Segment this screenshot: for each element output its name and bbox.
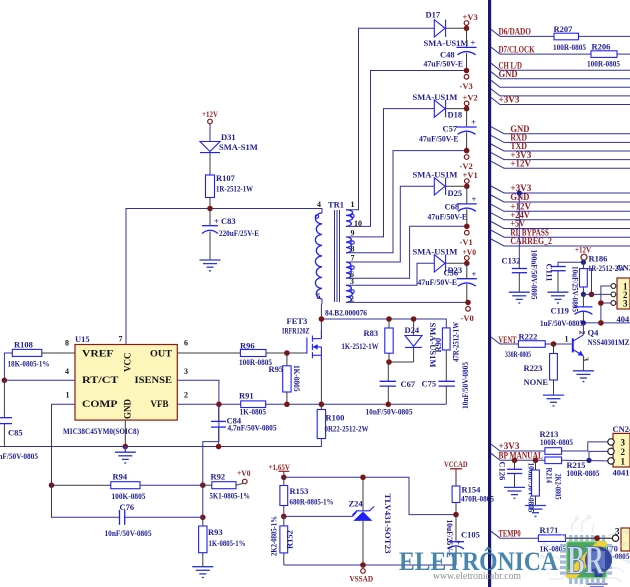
node +1,65V bbox=[281, 475, 287, 481]
svg-text:C68: C68 bbox=[445, 202, 460, 212]
capacitor C126 bbox=[498, 460, 537, 512]
svg-text:SMA-S1M: SMA-S1M bbox=[219, 142, 258, 152]
U15 GND pin wire bbox=[124, 420, 126, 446]
ground R214 bbox=[525, 506, 546, 517]
node D24 top bbox=[411, 316, 417, 322]
node R214 top bbox=[533, 458, 539, 464]
U15 pin numbers bbox=[65, 335, 188, 400]
svg-text:SMA-US1M: SMA-US1M bbox=[413, 170, 458, 180]
wire R222 to Q4 base bbox=[545, 343, 571, 345]
svg-text:BR: BR bbox=[567, 537, 604, 583]
bus vertical bbox=[488, 0, 491, 587]
svg-text:C76: C76 bbox=[120, 502, 135, 512]
resistor R108 bbox=[8, 340, 50, 369]
ground C126 bbox=[504, 487, 525, 498]
wire spare2 bbox=[491, 89, 630, 96]
zener Z24 TLV431 bbox=[349, 477, 394, 565]
svg-text:R186: R186 bbox=[589, 254, 608, 264]
node pin2 bbox=[589, 292, 595, 298]
wire Z24 ref bbox=[284, 515, 353, 517]
net flag +V0 bbox=[237, 468, 251, 484]
resistor R107 bbox=[206, 173, 254, 198]
svg-text:9: 9 bbox=[351, 228, 355, 237]
svg-text:D24: D24 bbox=[405, 325, 420, 335]
capacitor C67 bbox=[366, 362, 416, 417]
resistor R94 bbox=[52, 472, 146, 502]
resistor R152 bbox=[269, 516, 295, 565]
svg-text:+: + bbox=[471, 38, 476, 48]
wire +3V3 d bbox=[491, 441, 545, 451]
svg-text:NSS40301MZ: NSS40301MZ bbox=[588, 337, 630, 347]
svg-text:D6/DADO: D6/DADO bbox=[499, 27, 532, 37]
svg-text:-V1: -V1 bbox=[460, 237, 473, 247]
resistor R171 bbox=[538, 525, 566, 554]
wire R108 to VREF bbox=[42, 352, 75, 354]
node C76 left bbox=[200, 515, 206, 521]
wire COMP loop bbox=[52, 404, 76, 485]
resistor R186 bbox=[580, 254, 626, 295]
resistor R206 bbox=[587, 41, 620, 68]
svg-text:TR1: TR1 bbox=[328, 200, 344, 210]
node R94 left bbox=[49, 482, 55, 488]
wire node to CN2 pin2 bbox=[583, 293, 611, 295]
svg-text:0R22-2512-2W: 0R22-2512-2W bbox=[325, 424, 369, 434]
node pin3 bbox=[598, 300, 604, 306]
svg-text:C126: C126 bbox=[498, 462, 508, 481]
svg-text:8: 8 bbox=[351, 244, 355, 253]
svg-text:1K-2512-1W: 1K-2512-1W bbox=[342, 341, 379, 351]
wire pin7 to D25 row bbox=[346, 186, 434, 262]
svg-text:FET3: FET3 bbox=[287, 316, 308, 326]
wire +12V c bbox=[491, 202, 630, 212]
svg-text:2: 2 bbox=[578, 331, 587, 335]
resistor R215 bbox=[545, 457, 600, 478]
node +3V3/C132 bbox=[517, 190, 522, 195]
svg-text:C111: C111 bbox=[545, 264, 555, 282]
resistor R223 bbox=[524, 344, 558, 395]
svg-text:3: 3 bbox=[621, 437, 626, 447]
capacitor C105 bbox=[445, 515, 480, 565]
svg-text:VCCAD: VCCAD bbox=[444, 459, 468, 469]
node R186 top bbox=[581, 260, 586, 265]
svg-text:CN24: CN24 bbox=[613, 424, 630, 434]
wire VFB down bbox=[203, 404, 219, 517]
svg-text:680R-0805-1%: 680R-0805-1% bbox=[290, 497, 334, 507]
net flag VSSAD bbox=[350, 565, 374, 584]
node +V3 bbox=[464, 26, 470, 32]
svg-text:100K-0805: 100K-0805 bbox=[112, 491, 146, 501]
node R154/C105 bbox=[453, 512, 459, 518]
wire snubber rail bbox=[321, 319, 446, 328]
diode D24 bbox=[405, 319, 439, 367]
svg-text:R96: R96 bbox=[240, 341, 255, 351]
svg-text:D7/CLOCK: D7/CLOCK bbox=[499, 44, 535, 54]
node R92 bbox=[200, 482, 206, 488]
wire RL BYPASS bbox=[491, 227, 630, 237]
resistor R95 bbox=[269, 353, 303, 404]
wire to CN24 pin2 bbox=[589, 451, 608, 460]
ground U15 bbox=[115, 447, 136, 464]
svg-text:330R-0805: 330R-0805 bbox=[505, 349, 531, 359]
resistor R207 bbox=[553, 24, 586, 52]
capacitor C132 bbox=[502, 250, 540, 300]
node Z24 top bbox=[360, 475, 366, 481]
wire pin1 to D17 row bbox=[346, 28, 434, 209]
net flag +12V R186 bbox=[575, 245, 592, 261]
net flag +12V bbox=[202, 109, 219, 124]
svg-text:2K2-0805-1%: 2K2-0805-1% bbox=[269, 516, 279, 556]
resistor R153 bbox=[280, 477, 334, 516]
svg-text:1: 1 bbox=[621, 456, 626, 466]
wire R213 to CN24 pin3 bbox=[562, 442, 608, 451]
svg-text:5K1-0805-1%: 5K1-0805-1% bbox=[210, 491, 251, 501]
svg-text:U15: U15 bbox=[75, 334, 90, 344]
svg-text:NONE: NONE bbox=[524, 377, 549, 387]
TR1 primary winding bbox=[315, 213, 322, 299]
net flag +V0 bbox=[463, 247, 477, 260]
wire GND c bbox=[491, 192, 630, 202]
wire R96 to gate bbox=[266, 352, 307, 354]
diode D23 bbox=[413, 247, 467, 276]
svg-text:+V3: +V3 bbox=[463, 12, 478, 22]
capacitor C75 bbox=[422, 350, 471, 409]
U15 pin names bbox=[82, 349, 172, 420]
svg-text:100R-0805: 100R-0805 bbox=[540, 437, 573, 447]
svg-text:+V0: +V0 bbox=[463, 247, 477, 257]
connector CN24 bbox=[608, 424, 630, 478]
capacitor C68 bbox=[428, 186, 477, 226]
capacitor C111 bbox=[545, 262, 584, 312]
wire rail right part bbox=[219, 403, 446, 405]
net flag VCCAD bbox=[444, 459, 468, 486]
svg-text:1K-0805: 1K-0805 bbox=[240, 407, 267, 417]
capacitor C83 bbox=[202, 209, 259, 260]
node R186 bottom bbox=[581, 292, 586, 297]
svg-text:10nF/50V-0805: 10nF/50V-0805 bbox=[105, 528, 152, 538]
connector CN temp bbox=[612, 526, 630, 551]
svg-text:84.B2.000076: 84.B2.000076 bbox=[325, 308, 367, 318]
wire GND bbox=[491, 69, 630, 79]
net flag -V2 bbox=[460, 155, 473, 171]
TR1 primary polarity dot bbox=[315, 215, 318, 218]
svg-text:R214: R214 bbox=[545, 468, 555, 484]
capacitor C85 bbox=[0, 380, 38, 461]
wire D24 to R83 node bbox=[389, 361, 414, 363]
capacitor C84 bbox=[211, 404, 277, 446]
wire R107 to node bbox=[209, 198, 211, 209]
net flag -V3 bbox=[460, 75, 473, 92]
svg-text:1R-2512-1W: 1R-2512-1W bbox=[216, 184, 253, 194]
svg-text:8: 8 bbox=[65, 339, 69, 348]
svg-text:R108: R108 bbox=[14, 340, 33, 350]
wire CH L/D bbox=[491, 60, 630, 70]
svg-text:R152: R152 bbox=[285, 530, 295, 549]
TR1 secondary winding 7-6 bbox=[346, 253, 355, 279]
resistor R83 bbox=[342, 319, 394, 362]
svg-text:1K-0805-1%: 1K-0805-1% bbox=[209, 538, 246, 548]
capacitor C57 bbox=[419, 109, 477, 151]
svg-text:TLV431-SOT23: TLV431-SOT23 bbox=[383, 494, 393, 554]
wire collector rail bbox=[583, 322, 630, 324]
node -V0 bbox=[465, 300, 471, 306]
svg-text:GND: GND bbox=[499, 69, 518, 79]
ground C132 bbox=[509, 292, 530, 303]
svg-text:47uF/50V-E: 47uF/50V-E bbox=[418, 277, 458, 287]
node R215 out bbox=[586, 458, 591, 463]
TR1 secondary winding 1-10 bbox=[346, 210, 362, 228]
wire +3V3 c bbox=[491, 183, 630, 193]
wire R108 left to node bbox=[4, 353, 12, 380]
svg-text:100R-0805: 100R-0805 bbox=[239, 357, 272, 367]
wire C132 drop bbox=[518, 193, 520, 258]
svg-text:R206: R206 bbox=[592, 41, 611, 51]
wire isense rail bbox=[177, 403, 219, 405]
net flag -V1 bbox=[460, 230, 473, 247]
svg-text:1: 1 bbox=[66, 391, 70, 400]
svg-text:ISENSE: ISENSE bbox=[135, 375, 173, 385]
svg-text:47uF/50V-E: 47uF/50V-E bbox=[428, 212, 468, 222]
svg-text:VREF: VREF bbox=[82, 349, 114, 359]
wire R215 to CN24 pin1 bbox=[562, 459, 608, 462]
node gate/R95 bbox=[284, 350, 290, 356]
wire R94 to node bbox=[140, 484, 203, 486]
svg-text:COMP: COMP bbox=[82, 399, 118, 409]
resistor R170 bbox=[593, 538, 629, 583]
svg-text:D17: D17 bbox=[426, 10, 441, 20]
resistor R96 bbox=[177, 341, 272, 368]
svg-text:CARREG_2: CARREG_2 bbox=[510, 236, 552, 246]
diode D18 bbox=[413, 92, 467, 120]
resistor R213 bbox=[540, 429, 574, 454]
svg-text:C56: C56 bbox=[444, 268, 459, 278]
wire spare1 bbox=[491, 80, 630, 87]
svg-text:47uF/50V-E: 47uF/50V-E bbox=[424, 59, 464, 69]
wire R171 to CN bbox=[566, 537, 613, 539]
svg-text:C105: C105 bbox=[461, 530, 480, 540]
wire pin8 to -V2 row bbox=[346, 151, 467, 253]
svg-text:+V2: +V2 bbox=[463, 93, 478, 103]
wire VCC rail y=208.5 bbox=[126, 209, 322, 345]
connector CN2 bbox=[611, 263, 630, 325]
node +V2 bbox=[464, 106, 470, 112]
svg-text:R94: R94 bbox=[113, 472, 128, 482]
wire +3V3 a bbox=[491, 95, 630, 105]
svg-text:IRFR120Z: IRFR120Z bbox=[282, 326, 310, 336]
svg-text:SMA-US1M: SMA-US1M bbox=[413, 247, 458, 257]
svg-text:R95: R95 bbox=[269, 364, 284, 374]
wire pin9 to D18 row bbox=[346, 109, 434, 237]
TR1 secondary winding 9-8 bbox=[346, 228, 355, 253]
svg-text:C67: C67 bbox=[401, 379, 416, 389]
wire BP MANUAL bbox=[491, 451, 545, 461]
node rail/pins bbox=[598, 320, 604, 326]
svg-text:R223: R223 bbox=[524, 363, 543, 373]
svg-text:R153: R153 bbox=[290, 486, 309, 496]
svg-text:7: 7 bbox=[351, 253, 355, 262]
svg-text:VFB: VFB bbox=[151, 399, 169, 409]
svg-text:MIC38C45YM0(SOIC8): MIC38C45YM0(SOIC8) bbox=[63, 427, 139, 436]
wire CN2 pin3 bbox=[601, 302, 611, 304]
svg-text:+: + bbox=[472, 269, 477, 279]
node C119 bottom bbox=[581, 320, 586, 325]
op-amp U15 box bbox=[75, 345, 177, 421]
svg-text:4: 4 bbox=[317, 200, 321, 209]
wire FET drain bbox=[320, 319, 322, 330]
svg-text:SMA-US1M: SMA-US1M bbox=[413, 92, 458, 102]
net flag +V2 bbox=[463, 93, 478, 106]
ground C111 bbox=[548, 292, 569, 303]
ground C83 bbox=[200, 260, 221, 271]
wire RXD bbox=[491, 133, 630, 143]
node C126 top bbox=[512, 458, 518, 464]
node FET drain bbox=[319, 316, 325, 322]
svg-text:10nF/50V-0805: 10nF/50V-0805 bbox=[366, 407, 413, 417]
resistor R91 bbox=[239, 391, 266, 417]
svg-text:10nF/50V-0805: 10nF/50V-0805 bbox=[460, 362, 470, 409]
svg-text:Q4: Q4 bbox=[588, 328, 600, 338]
svg-text:+12V: +12V bbox=[510, 158, 531, 168]
node -V1 bbox=[464, 224, 470, 230]
svg-text:+: + bbox=[471, 117, 476, 127]
wire +3V3 b bbox=[491, 150, 630, 160]
wire +12V bypass to pin2 bbox=[587, 269, 591, 295]
svg-text:R222: R222 bbox=[519, 331, 538, 341]
svg-text:VCC: VCC bbox=[123, 353, 133, 373]
svg-text:18K-0805-1%: 18K-0805-1% bbox=[8, 359, 50, 369]
wire TEMP0 bbox=[491, 528, 538, 538]
node +V1 bbox=[464, 184, 470, 190]
capacitor C56 bbox=[418, 263, 477, 302]
net flag +1,65V bbox=[269, 462, 291, 477]
svg-text:VSSAD: VSSAD bbox=[350, 574, 374, 584]
svg-text:2: 2 bbox=[621, 447, 626, 457]
resistor R100 bbox=[317, 404, 369, 438]
svg-text:1K-0805: 1K-0805 bbox=[292, 365, 302, 392]
node -V3 bbox=[464, 68, 470, 74]
transistor FET3 bbox=[282, 316, 321, 360]
svg-text:1uF/50V-0805: 1uF/50V-0805 bbox=[540, 318, 583, 328]
svg-text:R107: R107 bbox=[216, 173, 236, 183]
svg-text:VENT: VENT bbox=[499, 335, 517, 345]
TR1 core bbox=[335, 210, 340, 302]
wire pin2 to -V0 node bbox=[346, 301, 468, 303]
node C84 bottom bbox=[216, 444, 222, 450]
resistor R154 bbox=[452, 485, 494, 515]
svg-text:-V3: -V3 bbox=[460, 81, 473, 91]
wire ground rail y=446.5 bbox=[0, 439, 321, 447]
wire VSSAD rail bbox=[284, 564, 456, 566]
wire RT/CT bbox=[4, 379, 75, 381]
ground R93 bbox=[192, 567, 213, 578]
svg-text:100nF/50V-0805: 100nF/50V-0805 bbox=[530, 250, 540, 300]
wire TEMP0 overlay bbox=[566, 535, 613, 541]
svg-text:47uF/50V-E: 47uF/50V-E bbox=[419, 134, 459, 144]
svg-text:C85: C85 bbox=[8, 428, 23, 438]
svg-text:C75: C75 bbox=[422, 379, 437, 389]
node VSSAD bbox=[360, 562, 366, 568]
svg-text:4,7nF/50V-0805: 4,7nF/50V-0805 bbox=[228, 423, 277, 433]
svg-text:2: 2 bbox=[184, 391, 188, 400]
svg-text:C57: C57 bbox=[443, 124, 458, 134]
capacitor C48 bbox=[424, 28, 477, 70]
svg-text:RT/CT: RT/CT bbox=[82, 375, 119, 385]
diode D25 bbox=[413, 170, 467, 199]
net flag -V0 bbox=[461, 307, 474, 324]
wire D31 to R107 bbox=[209, 153, 211, 175]
net flag +V1 bbox=[463, 170, 478, 183]
node FET source rail bbox=[319, 402, 325, 408]
svg-text:3: 3 bbox=[623, 299, 628, 309]
svg-text:2K2-0805: 2K2-0805 bbox=[554, 474, 564, 500]
svg-text:-V0: -V0 bbox=[461, 313, 474, 323]
chip body bbox=[567, 542, 613, 579]
svg-text:R100: R100 bbox=[326, 413, 345, 423]
svg-text:40410: 40410 bbox=[617, 314, 630, 324]
wire pin5 to FET drain node bbox=[320, 299, 323, 319]
wire VENT bbox=[491, 335, 518, 345]
svg-text:100R-0805: 100R-0805 bbox=[567, 468, 600, 478]
svg-text:CN2: CN2 bbox=[617, 263, 630, 273]
svg-text:R207: R207 bbox=[554, 24, 574, 34]
svg-text:Z24: Z24 bbox=[349, 499, 364, 509]
svg-text:220uF/25V-E: 220uF/25V-E bbox=[219, 228, 259, 238]
diode D17 bbox=[424, 10, 469, 49]
svg-text:100R-0805: 100R-0805 bbox=[587, 59, 620, 69]
svg-text:TEMP0: TEMP0 bbox=[499, 528, 522, 538]
svg-text:+: + bbox=[472, 194, 477, 204]
svg-text:R90: R90 bbox=[433, 338, 443, 353]
node R95 bottom bbox=[284, 402, 290, 408]
wire +1,65V rail bbox=[284, 477, 456, 514]
svg-text:+3V3: +3V3 bbox=[499, 95, 520, 105]
node RT/CT bbox=[2, 378, 8, 384]
wire FET source bbox=[320, 360, 322, 404]
ground Q4 bbox=[573, 371, 594, 382]
svg-text:D31: D31 bbox=[221, 132, 236, 142]
node R152 top bbox=[281, 514, 287, 520]
svg-text:D25: D25 bbox=[448, 188, 463, 198]
svg-text:47R-2512-1W: 47R-2512-1W bbox=[451, 322, 461, 362]
wire TXD bbox=[491, 141, 630, 151]
svg-text:GND: GND bbox=[123, 399, 133, 420]
svg-text:3: 3 bbox=[615, 526, 620, 536]
resistor R214 bbox=[532, 460, 564, 505]
chip pins bbox=[560, 535, 612, 584]
node -V2 bbox=[464, 148, 470, 154]
node C67 top bbox=[386, 359, 392, 365]
resistor R92 bbox=[203, 472, 250, 501]
resistor R222 bbox=[505, 331, 545, 359]
svg-text:1: 1 bbox=[351, 200, 355, 209]
node VFB/C84 bbox=[216, 402, 222, 408]
svg-text:R93: R93 bbox=[208, 527, 223, 537]
svg-text:40410: 40410 bbox=[613, 468, 630, 478]
svg-text:3: 3 bbox=[184, 367, 188, 376]
svg-text:www.eletronicabr.com: www.eletronicabr.com bbox=[433, 571, 521, 582]
capacitor C119 bbox=[540, 294, 592, 328]
wire D6/DADO bbox=[491, 27, 630, 37]
wire GND b bbox=[491, 124, 630, 134]
svg-text:+12V: +12V bbox=[202, 109, 219, 119]
wire pin3 to D23 row bbox=[346, 263, 434, 285]
node +V0 bbox=[464, 261, 470, 267]
diode D31 bbox=[200, 132, 258, 153]
node R170 top bbox=[594, 535, 600, 541]
node R83 top bbox=[386, 316, 392, 322]
svg-text:7: 7 bbox=[119, 335, 123, 344]
svg-text:R91: R91 bbox=[239, 391, 254, 401]
resistor R93 bbox=[199, 517, 246, 566]
